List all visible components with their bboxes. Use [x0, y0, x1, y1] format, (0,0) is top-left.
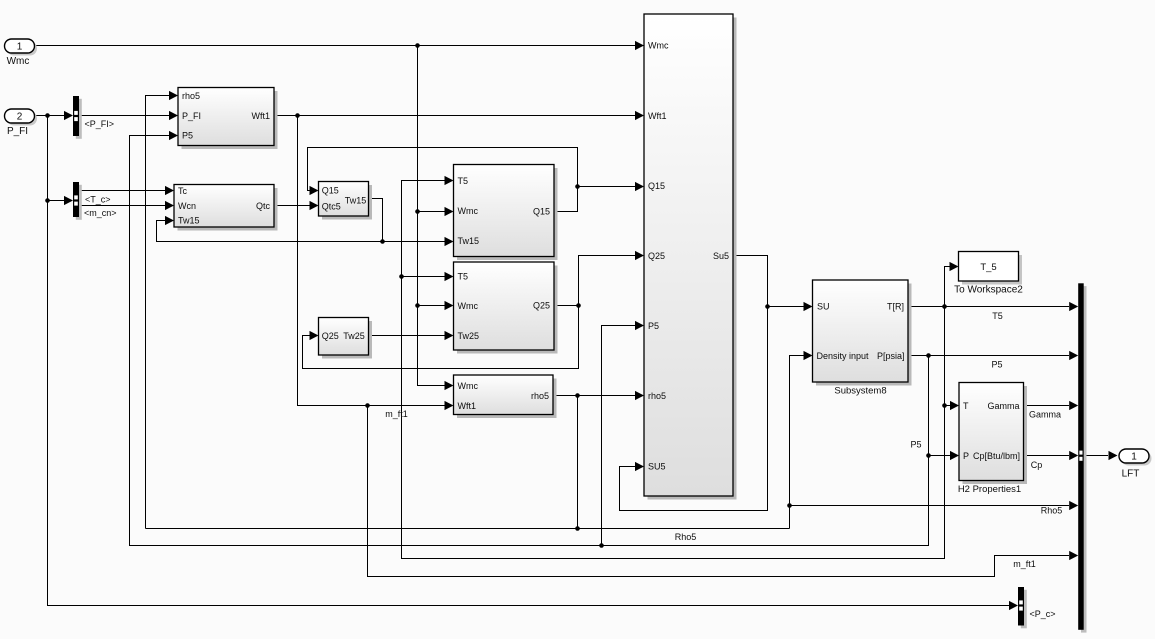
large subsystem block (Wmc,Wft1,Q15,Q25,P5,rho5,SU5 -> Su5) — [644, 14, 737, 500]
svg-text:Cp: Cp — [1031, 460, 1043, 470]
outport 1 LFT — [1119, 449, 1152, 466]
subsystem Subsystem8 (SU,Density input -> T[R],P[psia]) — [813, 280, 912, 386]
port labels Subsystem8 — [817, 302, 905, 361]
svg-text:<m_cn>: <m_cn> — [84, 208, 117, 218]
wire Su5 feedback — [620, 256, 768, 511]
port labels Wft1 block — [182, 91, 270, 141]
subsystem block Tw25 (Q25 -> Tw25) — [319, 318, 373, 359]
inport 1 Wmc — [5, 39, 38, 56]
subsystem block rho5 (Wmc,Wft1 -> rho5) — [454, 375, 557, 418]
svg-text:T5: T5 — [992, 311, 1003, 321]
svg-text:Gamma: Gamma — [1029, 410, 1061, 420]
wire Tw15 feedback to Qtc block — [157, 221, 383, 242]
svg-text:<P_FI>: <P_FI> — [85, 119, 115, 129]
wire Rho5 up to bus junction — [789, 506, 791, 529]
svg-text:Wft1: Wft1 — [458, 401, 477, 411]
svg-text:Q15: Q15 — [533, 207, 550, 217]
wire P5 to H2 Properties P — [929, 455, 951, 457]
subsystem block Q25 (T5,Wmc,Tw25 -> Q25) — [454, 262, 558, 354]
svg-text:SU: SU — [817, 302, 830, 312]
wire Q15 feedback to Tw15 block — [308, 148, 578, 191]
port labels Tw25 block — [322, 331, 365, 341]
wire Tw15 output — [369, 199, 383, 242]
wire rho5 output to large block — [553, 395, 635, 397]
wire <P_FI> to Wft1 block — [79, 115, 169, 117]
wire Wmc vertical drop — [418, 46, 446, 386]
svg-text:T5: T5 — [458, 176, 469, 186]
wire Q15 to large block — [578, 186, 636, 188]
port labels Q15 block — [458, 176, 551, 246]
svg-text:Q15: Q15 — [322, 185, 339, 195]
subsystem H2 Properties1 (T,P -> Gamma,Cp) — [959, 383, 1027, 485]
svg-text:2: 2 — [17, 112, 23, 123]
wire T5 feedback long — [402, 181, 945, 559]
svg-text:rho5: rho5 — [531, 391, 549, 401]
port labels Qtc block — [178, 186, 270, 225]
wire Su5 to Subsystem8 SU — [768, 306, 804, 308]
svg-text:T5: T5 — [458, 271, 469, 281]
wire Rho5 to Density input — [790, 356, 804, 506]
wire Q15 output — [554, 187, 578, 212]
svg-text:Rho5: Rho5 — [675, 532, 697, 542]
svg-text:rho5: rho5 — [182, 91, 200, 101]
subsystem block Wft1 (rho5,P_FI,P5 -> Wft1) — [178, 88, 278, 150]
svg-text:Wcn: Wcn — [178, 201, 196, 211]
wire Q25 feedback to Tw25 block — [303, 306, 579, 369]
wire Wmc from inport 1 — [35, 45, 645, 47]
svg-text:Wmc: Wmc — [7, 56, 30, 67]
wire P_FI bus drop to <P_c> selector — [48, 116, 1010, 606]
svg-text:m_ft1: m_ft1 — [385, 409, 408, 419]
svg-text:Q25: Q25 — [533, 301, 550, 311]
svg-text:<T_c>: <T_c> — [85, 194, 111, 204]
port labels Q25 block — [458, 271, 551, 341]
bus selector <P_c> — [1018, 587, 1027, 628]
svg-text:P5: P5 — [991, 359, 1002, 369]
wire Wft1 drop to rho5 block — [298, 116, 446, 406]
svg-text:SU5: SU5 — [648, 462, 666, 472]
svg-text:P_FI: P_FI — [7, 126, 28, 137]
svg-text:Rho5: Rho5 — [1041, 506, 1063, 516]
wire T5 to To Workspace2 — [945, 267, 950, 307]
wire Rho5 to bus creator — [790, 505, 1070, 507]
svg-text:P5: P5 — [182, 131, 193, 141]
wire Tw15 to Q15 block — [383, 241, 446, 243]
wire m_ft1 to bus creator — [368, 406, 1070, 577]
svg-text:T: T — [963, 401, 969, 411]
svg-text:1: 1 — [17, 42, 23, 53]
svg-text:Wmc: Wmc — [458, 301, 479, 311]
port labels Tw15 block — [322, 185, 367, 211]
wire Rho5 up to Wft1 block rho5 input — [146, 96, 170, 529]
wire Gamma to bus creator — [1024, 405, 1070, 407]
svg-text:H2 Properties1: H2 Properties1 — [958, 484, 1021, 495]
svg-text:Subsystem8: Subsystem8 — [834, 386, 886, 397]
wire P_FI from inport 2 — [35, 115, 65, 117]
wire Q25 output to large block — [554, 256, 635, 306]
svg-text:1: 1 — [1131, 452, 1137, 463]
svg-text:Wft1: Wft1 — [648, 111, 667, 121]
svg-text:m_ft1: m_ft1 — [1013, 559, 1036, 569]
svg-text:Tw15: Tw15 — [345, 196, 367, 206]
port labels rho5 block — [458, 381, 550, 411]
port labels H2 Properties1 — [963, 401, 1020, 461]
wire T5 to H2 Properties T — [945, 405, 951, 407]
svg-text:P: P — [963, 451, 969, 461]
svg-text:Wft1: Wft1 — [251, 111, 270, 121]
svg-text:Wmc: Wmc — [648, 41, 669, 51]
port labels large block — [648, 41, 729, 472]
bus creator bar — [1078, 283, 1086, 632]
svg-text:Gamma: Gamma — [987, 401, 1019, 411]
wire <T_c> to Tc — [79, 190, 165, 192]
svg-text:Su5: Su5 — [713, 251, 729, 261]
svg-text:Wmc: Wmc — [458, 381, 479, 391]
wire bus creator to outport LFT — [1084, 455, 1108, 457]
svg-text:To Workspace2: To Workspace2 — [954, 285, 1023, 296]
svg-text:T_5: T_5 — [980, 262, 996, 273]
wire rho5 drop — [577, 396, 579, 529]
wire P[psia] to bus creator — [908, 355, 1069, 357]
svg-text:Tw15: Tw15 — [178, 216, 200, 226]
svg-text:Cp[Btu/lbm]: Cp[Btu/lbm] — [973, 451, 1020, 461]
svg-text:LFT: LFT — [1122, 469, 1140, 480]
wire Wmc branch to Q15 block — [418, 211, 446, 213]
wire Wft1 to large block — [274, 115, 635, 117]
wire P5 up to large block — [602, 326, 636, 546]
wire Rho5 long line — [146, 528, 790, 530]
svg-text:Qtc: Qtc — [256, 201, 271, 211]
inport 2 P_FI — [5, 109, 38, 126]
subsystem block Qtc (Tc,Wcn,Tw15 -> Qtc) — [174, 185, 278, 231]
wire Tw25 to Q25 block — [369, 335, 446, 337]
svg-text:Q25: Q25 — [322, 331, 339, 341]
svg-text:Tw15: Tw15 — [458, 236, 480, 246]
wire Wmc branch to Q25 block — [418, 305, 446, 307]
wire <m_cn> to Wcn — [79, 205, 165, 207]
bus selector <P_FI> — [73, 96, 82, 139]
svg-text:T[R]: T[R] — [887, 302, 904, 312]
svg-text:<P_c>: <P_c> — [1030, 609, 1056, 619]
svg-text:Qtc5: Qtc5 — [322, 201, 341, 211]
svg-text:Wmc: Wmc — [458, 206, 479, 216]
To Workspace2 block T_5 — [959, 252, 1023, 285]
subsystem block Tw15 (Q15,Qtc5 -> Tw15) — [319, 182, 373, 220]
svg-text:Tw25: Tw25 — [458, 331, 480, 341]
wire P_FI branch to second selector — [48, 200, 65, 202]
wire P5 feedback long — [130, 136, 929, 546]
svg-text:P5: P5 — [910, 440, 921, 450]
bus selector <T_c>,<m_cn> — [73, 182, 82, 220]
wire Cp to bus creator — [1024, 455, 1070, 457]
subsystem block Q15 (T5,Wmc,Tw15 -> Q15) — [454, 165, 558, 261]
wire Qtc to Qtc5 — [274, 205, 310, 207]
svg-text:P[psia]: P[psia] — [877, 351, 905, 361]
svg-text:Q25: Q25 — [648, 251, 665, 261]
svg-text:Tc: Tc — [178, 186, 188, 196]
svg-text:Density input: Density input — [817, 351, 870, 361]
svg-text:P5: P5 — [648, 321, 659, 331]
svg-text:Tw25: Tw25 — [343, 331, 365, 341]
svg-text:P_FI: P_FI — [182, 111, 201, 121]
wire T5 branch to Q25 block — [402, 276, 446, 278]
svg-text:rho5: rho5 — [648, 391, 666, 401]
svg-text:Q15: Q15 — [648, 181, 665, 191]
wire T[R] to bus creator — [908, 306, 1069, 308]
